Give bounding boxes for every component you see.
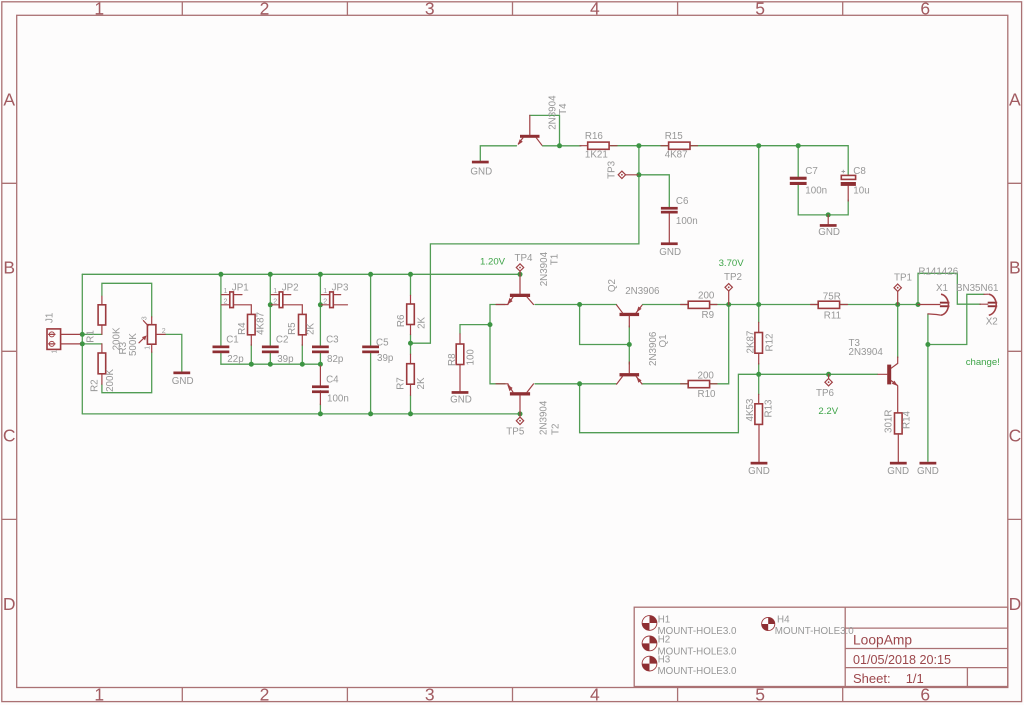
wire R16 to R15 — [611, 145, 669, 147]
wire J1 pin2 to R2 — [80, 343, 102, 345]
resistor R11 — [811, 292, 848, 322]
svg-text:JP2: JP2 — [282, 283, 299, 294]
node J1 pin2 junction — [80, 341, 85, 346]
node X1 shield junction — [925, 342, 930, 347]
node T2 collector junction — [577, 381, 582, 386]
svg-text:R2: R2 — [90, 379, 101, 392]
svg-text:100: 100 — [466, 349, 477, 366]
wire JP2/C2 vertical — [269, 274, 271, 364]
svg-text:1: 1 — [224, 288, 228, 295]
node J1 pin1 junction — [80, 332, 85, 337]
wire R12 bottom — [758, 364, 760, 375]
wire Q1 emitter to R10 — [643, 383, 689, 385]
svg-text:C4: C4 — [326, 374, 339, 385]
svg-text:10u: 10u — [853, 186, 869, 197]
svg-text:1: 1 — [94, 0, 104, 19]
wire R5 bottom lead — [301, 345, 303, 364]
resistor R13 — [745, 394, 775, 461]
capacitor C5 — [362, 337, 394, 364]
ground symbol R13 — [748, 462, 770, 477]
svg-text:3: 3 — [141, 316, 148, 320]
svg-text:4K87: 4K87 — [255, 312, 266, 335]
node capacitor mid rail junctions — [249, 362, 323, 367]
wire R11 to TP1 node to X1 — [840, 304, 918, 306]
svg-text:C: C — [3, 426, 16, 446]
svg-text:C2: C2 — [276, 335, 289, 346]
transistor T2 — [496, 384, 562, 435]
svg-text:TP4: TP4 — [515, 253, 534, 264]
svg-text:Q2: Q2 — [607, 279, 618, 292]
svg-text:GND: GND — [818, 227, 840, 238]
svg-text:C8: C8 — [853, 166, 866, 177]
svg-text:R10: R10 — [698, 389, 717, 400]
svg-text:301R: 301R — [883, 410, 894, 433]
capacitor C4 — [312, 366, 349, 405]
resistor R2 — [90, 344, 117, 392]
node C7 C8 GND junction — [826, 212, 831, 217]
node TP2 junction — [726, 302, 731, 307]
node Q2 Q1 base junction — [627, 342, 632, 347]
svg-text:1: 1 — [94, 685, 104, 705]
wire R12 top — [758, 305, 760, 323]
svg-text:2N3904: 2N3904 — [548, 95, 559, 130]
resistor R15 — [661, 131, 698, 161]
node C7 top junction — [796, 143, 801, 148]
resistor R16 — [580, 131, 617, 161]
svg-text:D: D — [1009, 594, 1022, 614]
resistor R6 — [396, 295, 428, 334]
node T1 collector junction — [577, 302, 582, 307]
svg-text:X2: X2 — [986, 317, 998, 328]
resistor R7 — [396, 354, 428, 395]
svg-text:GND: GND — [450, 394, 472, 405]
svg-text:H1: H1 — [658, 615, 671, 626]
svg-text:1: 1 — [273, 288, 277, 295]
svg-text:1: 1 — [51, 350, 58, 354]
transistor T3 — [849, 338, 898, 413]
wire R13 top — [758, 374, 760, 394]
frame row ticks left — [2, 183, 17, 519]
svg-text:4: 4 — [590, 685, 600, 705]
jumper JP1 — [222, 283, 252, 308]
resistor R14 — [883, 410, 912, 462]
svg-text:C6: C6 — [676, 196, 689, 207]
svg-text:100n: 100n — [676, 216, 698, 227]
wire emitter rail T1 T2 — [490, 305, 505, 384]
svg-text:100n: 100n — [805, 186, 827, 197]
transistor T4 — [518, 95, 569, 145]
ground symbol X1 shield — [917, 462, 939, 477]
svg-text:100n: 100n — [327, 394, 349, 405]
svg-text:2K: 2K — [417, 316, 428, 328]
svg-text:Sheet:: Sheet: — [853, 671, 891, 686]
transistor Q1 — [617, 331, 669, 384]
svg-text:TP2: TP2 — [724, 272, 742, 283]
capacitor C1 — [213, 335, 245, 366]
svg-text:JP3: JP3 — [332, 283, 349, 294]
svg-text:2N3904: 2N3904 — [849, 347, 884, 358]
svg-text:R12: R12 — [765, 334, 776, 352]
svg-text:MOUNT-HOLE3.0: MOUNT-HOLE3.0 — [775, 626, 854, 637]
node R8 tap junction — [488, 322, 493, 327]
connector X2 — [956, 283, 998, 328]
svg-text:TP3: TP3 — [607, 160, 618, 179]
svg-text:GND: GND — [659, 247, 681, 258]
jumper JP3 — [321, 283, 349, 308]
svg-text:2K: 2K — [416, 377, 427, 389]
svg-text:C3: C3 — [326, 335, 339, 346]
svg-text:2: 2 — [273, 299, 277, 306]
svg-text:39p: 39p — [277, 354, 294, 365]
mount hole H1 — [642, 615, 737, 637]
frame row letters left — [3, 90, 16, 614]
svg-text:3: 3 — [425, 685, 435, 705]
svg-text:X1: X1 — [936, 283, 948, 294]
node T4 collector junction — [557, 143, 562, 148]
svg-text:2: 2 — [162, 328, 166, 335]
svg-text:R15: R15 — [665, 131, 684, 142]
node R15 vertical junction — [756, 143, 761, 148]
svg-text:5: 5 — [755, 0, 765, 19]
svg-text:TP6: TP6 — [816, 388, 835, 399]
wire R9 to TP2 node to R11 — [709, 304, 818, 306]
svg-text:A: A — [3, 90, 15, 110]
ground symbol C7 C8 — [818, 215, 840, 238]
svg-text:C5: C5 — [376, 337, 389, 348]
jumper JP2 — [271, 283, 302, 308]
svg-text:1: 1 — [323, 288, 327, 295]
node JP2 pin2 junction — [268, 302, 273, 307]
capacitor C2 — [262, 335, 294, 366]
node TP6 junction — [826, 372, 831, 377]
svg-text:H4: H4 — [777, 615, 790, 626]
wire Q2 base lead lower — [628, 326, 630, 364]
ground symbol R8 — [450, 391, 472, 405]
wire C7 bottom to C8 bottom — [798, 185, 848, 215]
svg-text:2: 2 — [224, 299, 228, 306]
svg-text:R141426: R141426 — [918, 267, 958, 278]
node R6 R7 feedback junction — [408, 341, 413, 346]
wire T4 emitter to GND — [480, 146, 516, 161]
test point TP2 — [724, 272, 742, 305]
svg-text:R7: R7 — [396, 377, 407, 390]
title block box — [634, 607, 1008, 686]
node R16 R15 junction — [636, 143, 641, 148]
node top rail junctions — [218, 272, 522, 277]
wire bottom rail to T2 base — [82, 413, 520, 415]
svg-text:B: B — [3, 258, 15, 278]
ground symbol R14 — [887, 462, 909, 477]
svg-text:1: 1 — [145, 346, 152, 350]
svg-text:JP1: JP1 — [232, 283, 249, 294]
wire JP1/C1 vertical — [220, 274, 222, 364]
svg-text:TP1: TP1 — [894, 272, 912, 283]
wire R10 up to TP2 node — [709, 305, 728, 384]
frame column ticks bottom — [182, 688, 842, 702]
transistor T1 — [496, 251, 561, 304]
svg-text:LoopAmp: LoopAmp — [853, 632, 912, 647]
svg-text:2N3904: 2N3904 — [539, 251, 550, 286]
wire R15 to C7 C8 — [690, 146, 848, 176]
svg-text:GND: GND — [172, 376, 194, 387]
svg-text:5: 5 — [755, 685, 765, 705]
svg-text:1.20V: 1.20V — [480, 256, 506, 267]
svg-text:R5: R5 — [287, 322, 298, 335]
svg-text:T4: T4 — [558, 103, 569, 115]
mount hole H4 — [762, 615, 855, 637]
svg-text:2.2V: 2.2V — [818, 406, 838, 417]
wire input loop left vertical — [81, 274, 83, 414]
node R12 rail junction — [756, 302, 761, 307]
svg-text:6: 6 — [920, 685, 930, 705]
wire R6 bottom to R7 top — [410, 334, 412, 354]
transistor Q2 — [607, 279, 660, 327]
svg-text:3.70V: 3.70V — [719, 258, 745, 269]
svg-text:T2: T2 — [551, 424, 562, 435]
svg-text:change!: change! — [966, 357, 1000, 368]
mount hole H3 — [642, 655, 737, 677]
wire TP3 node to C6 — [639, 175, 669, 207]
svg-text:H3: H3 — [658, 655, 671, 666]
svg-text:500K: 500K — [128, 333, 139, 356]
ground symbol T4 — [470, 161, 492, 178]
svg-text:R14: R14 — [902, 410, 913, 429]
svg-text:R9: R9 — [702, 310, 715, 321]
svg-text:B: B — [1009, 258, 1021, 278]
test point TP5 — [506, 414, 525, 438]
wire R3 pin2 to GND — [165, 334, 182, 371]
wire T2 collector rail — [535, 383, 617, 385]
svg-text:200: 200 — [698, 290, 715, 301]
frame column numbers top — [94, 0, 930, 19]
svg-text:C7: C7 — [805, 166, 818, 177]
wire feedback loop R6R7 to R16 node — [411, 146, 639, 344]
svg-text:2N3906: 2N3906 — [625, 286, 660, 297]
svg-text:R6: R6 — [396, 314, 407, 327]
svg-text:200K: 200K — [105, 369, 116, 392]
resistor R12 — [746, 322, 776, 364]
resistor R5 — [287, 305, 316, 345]
svg-text:6: 6 — [920, 0, 930, 19]
node R12 R13 base junction — [756, 372, 761, 377]
svg-text:2N3904: 2N3904 — [539, 400, 550, 435]
svg-text:MOUNT-HOLE3.0: MOUNT-HOLE3.0 — [658, 666, 737, 677]
svg-text:H2: H2 — [658, 634, 671, 645]
wire X1 shield to GND — [927, 314, 929, 461]
mount hole H2 — [642, 634, 737, 657]
frame column ticks top — [182, 2, 842, 16]
resistor R10 — [681, 370, 717, 399]
wire R7 bottom — [410, 395, 412, 414]
ground symbol C6 — [659, 242, 681, 258]
svg-text:R4: R4 — [237, 322, 248, 335]
connector X1 — [918, 267, 959, 316]
wire T4 base loop — [530, 115, 560, 145]
wire X1 center loop to X2 — [918, 273, 981, 304]
wire output loop to T3 base — [580, 374, 878, 432]
svg-text:1K21: 1K21 — [585, 150, 608, 161]
svg-text:GND: GND — [470, 167, 492, 178]
test point TP6 — [816, 374, 835, 399]
wire C7 top — [797, 146, 799, 177]
svg-text:01/05/2018 20:15: 01/05/2018 20:15 — [853, 653, 951, 667]
svg-text:C1: C1 — [226, 335, 239, 346]
wire JP3/C3/C4 vertical — [319, 274, 321, 364]
ground symbol R3 — [172, 372, 194, 388]
wire R2 bottom to R3 pin1 — [102, 352, 152, 393]
wire Q2 Q1 base node — [580, 305, 630, 345]
svg-text:82p: 82p — [327, 354, 344, 365]
test point TP3 — [607, 160, 639, 179]
svg-text:1/1: 1/1 — [906, 671, 924, 686]
svg-text:R13: R13 — [764, 399, 775, 418]
test point TP4 — [515, 253, 534, 274]
frame row ticks right — [1008, 183, 1022, 519]
wire X1 shield to X2 shield — [928, 294, 984, 344]
svg-text:2: 2 — [260, 0, 270, 19]
frame column numbers bottom — [94, 685, 930, 705]
node TP1 junction — [895, 302, 900, 307]
svg-text:C: C — [1009, 426, 1022, 446]
wire R1 top to R3 pin3 — [102, 283, 152, 317]
svg-text:A: A — [1009, 90, 1021, 110]
resistor R1 — [86, 296, 123, 350]
svg-text:R11: R11 — [824, 310, 841, 321]
svg-text:200: 200 — [698, 370, 715, 381]
wire R15 node vertical — [758, 146, 760, 305]
svg-text:R16: R16 — [585, 131, 604, 142]
capacitor C6 — [661, 196, 698, 243]
node X1 center junction — [916, 302, 921, 307]
svg-text:2K: 2K — [305, 322, 316, 334]
svg-text:2: 2 — [260, 685, 270, 705]
connector J1 — [44, 313, 80, 354]
test point TP1 — [894, 272, 912, 304]
svg-text:J1: J1 — [44, 313, 55, 323]
resistor R8 — [447, 334, 477, 391]
wire C5 vertical — [370, 274, 372, 414]
wire R8 tap — [460, 325, 490, 334]
svg-text:4K87: 4K87 — [665, 150, 688, 161]
node JP3 pin2 junction — [318, 302, 323, 307]
wire C4 bottom lead — [319, 404, 321, 414]
resistor R4 — [237, 305, 266, 345]
svg-text:39p: 39p — [377, 353, 394, 364]
svg-text:R1: R1 — [86, 330, 97, 343]
svg-text:GND: GND — [917, 466, 939, 477]
potentiometer R3 — [118, 316, 166, 356]
frame row letters right — [1009, 90, 1022, 614]
wire capacitor mid rail — [221, 363, 321, 365]
wire top rail to T1 base — [82, 273, 520, 275]
wire T4 collector to R16 — [543, 145, 582, 147]
capacitor C8 polarized — [841, 166, 870, 201]
svg-text:GND: GND — [887, 466, 909, 477]
svg-text:4K53: 4K53 — [745, 398, 756, 421]
wire T1 collector rail — [535, 304, 617, 306]
svg-text:BN35N61: BN35N61 — [956, 283, 998, 294]
node TP3 junction — [636, 172, 641, 177]
svg-text:4: 4 — [590, 0, 600, 19]
wire R4 bottom lead — [250, 345, 252, 364]
svg-text:3: 3 — [425, 0, 435, 19]
wire J1 pin1 to R1 — [80, 333, 102, 335]
resistor R9 — [681, 290, 717, 321]
svg-text:GND: GND — [748, 466, 770, 477]
svg-text:2K87: 2K87 — [746, 331, 757, 354]
capacitor C3 — [312, 335, 344, 366]
svg-text:T1: T1 — [550, 254, 561, 265]
capacitor C7 — [790, 166, 827, 197]
svg-text:2: 2 — [323, 299, 327, 306]
node bottom rail junctions — [318, 411, 523, 416]
svg-text:TP5: TP5 — [506, 427, 525, 438]
svg-text:D: D — [3, 594, 16, 614]
wire R6 top — [410, 274, 412, 295]
svg-text:R8: R8 — [447, 353, 458, 366]
svg-text:75R: 75R — [823, 292, 841, 303]
svg-text:22p: 22p — [227, 354, 244, 365]
svg-text:Q1: Q1 — [658, 334, 669, 347]
wire Q2 emitter to R9 — [643, 304, 689, 306]
wire T3 collector up — [897, 305, 899, 358]
